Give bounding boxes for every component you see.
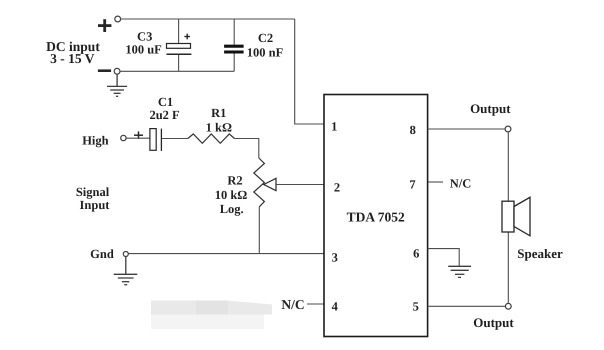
svg-text:N/C: N/C: [450, 176, 472, 190]
minus polarity symbol DC-: [98, 69, 111, 72]
wire speaker to output bottom: [507, 232, 509, 303]
ground (pin 6): [448, 266, 471, 277]
wire pin 5 to output node: [428, 305, 506, 307]
svg-text:Speaker: Speaker: [517, 246, 563, 261]
node High input terminal: [121, 135, 126, 140]
node Output bottom: [505, 303, 511, 309]
wire top rail: [121, 18, 295, 20]
svg-text:2: 2: [334, 180, 340, 194]
wire bottom rail: [120, 70, 234, 72]
wire R2 wiper to pin 2: [276, 184, 324, 186]
svg-text:C1: C1: [158, 95, 173, 109]
wire Gnd to pin 3: [128, 253, 324, 255]
svg-text:TDA 7052: TDA 7052: [347, 209, 405, 224]
svg-text:High: High: [82, 134, 108, 148]
svg-text:Output: Output: [473, 315, 514, 330]
svg-text:6: 6: [413, 246, 419, 260]
svg-text:R2: R2: [227, 173, 242, 187]
capacitor C2: [224, 19, 244, 71]
svg-text:1 kΩ: 1 kΩ: [206, 120, 232, 134]
svg-text:Gnd: Gnd: [90, 247, 114, 261]
op-amp U1 TDA7052 IC box: [324, 95, 428, 337]
capacitor C3: [167, 19, 192, 71]
watermark blob: [151, 301, 272, 330]
svg-text:3 - 15 V: 3 - 15 V: [50, 51, 95, 66]
svg-text:C2: C2: [258, 31, 273, 45]
svg-text:Log.: Log.: [220, 202, 244, 216]
svg-text:1: 1: [331, 119, 337, 133]
svg-text:Output: Output: [470, 101, 511, 116]
node DC+ terminal: [115, 16, 121, 22]
wire output top to speaker: [507, 132, 509, 201]
svg-text:4: 4: [332, 299, 339, 313]
svg-text:7: 7: [409, 177, 415, 191]
ground (DC input): [107, 74, 127, 96]
plus polarity symbol C1: [134, 131, 143, 139]
svg-text:Input: Input: [80, 198, 111, 212]
svg-text:100 nF: 100 nF: [247, 45, 284, 59]
svg-text:5: 5: [413, 299, 419, 313]
svg-text:2u2 F: 2u2 F: [149, 108, 180, 122]
svg-text:R1: R1: [211, 106, 226, 120]
wire pin 8 to output node: [428, 128, 506, 130]
svg-text:8: 8: [410, 123, 416, 137]
potentiometer R2: [254, 158, 276, 207]
capacitor C1: [150, 129, 162, 151]
wire pin 6 to ground: [428, 249, 460, 267]
speaker: [502, 197, 530, 236]
wire R1 to R2 top: [235, 139, 259, 159]
svg-text:10 kΩ: 10 kΩ: [215, 188, 248, 202]
svg-text:100 uF: 100 uF: [125, 42, 162, 56]
node Output top: [505, 126, 511, 132]
svg-text:3: 3: [332, 250, 338, 264]
node DC- terminal: [114, 68, 120, 74]
wire High to C1: [126, 137, 150, 139]
svg-text:N/C: N/C: [281, 297, 304, 312]
wire R2 bottom to gnd rail: [258, 207, 260, 254]
wire vertical drop to pin 1: [295, 19, 324, 124]
resistor R1: [188, 134, 235, 143]
ground (Gnd terminal): [114, 257, 138, 285]
plus polarity symbol DC+: [98, 19, 111, 32]
wire pin 7 stub: [429, 181, 444, 183]
node Gnd terminal: [123, 252, 128, 257]
wire C1 to R1: [161, 138, 187, 140]
svg-text:Signal: Signal: [76, 185, 110, 199]
wire N/C stub to pin 4: [307, 303, 324, 305]
